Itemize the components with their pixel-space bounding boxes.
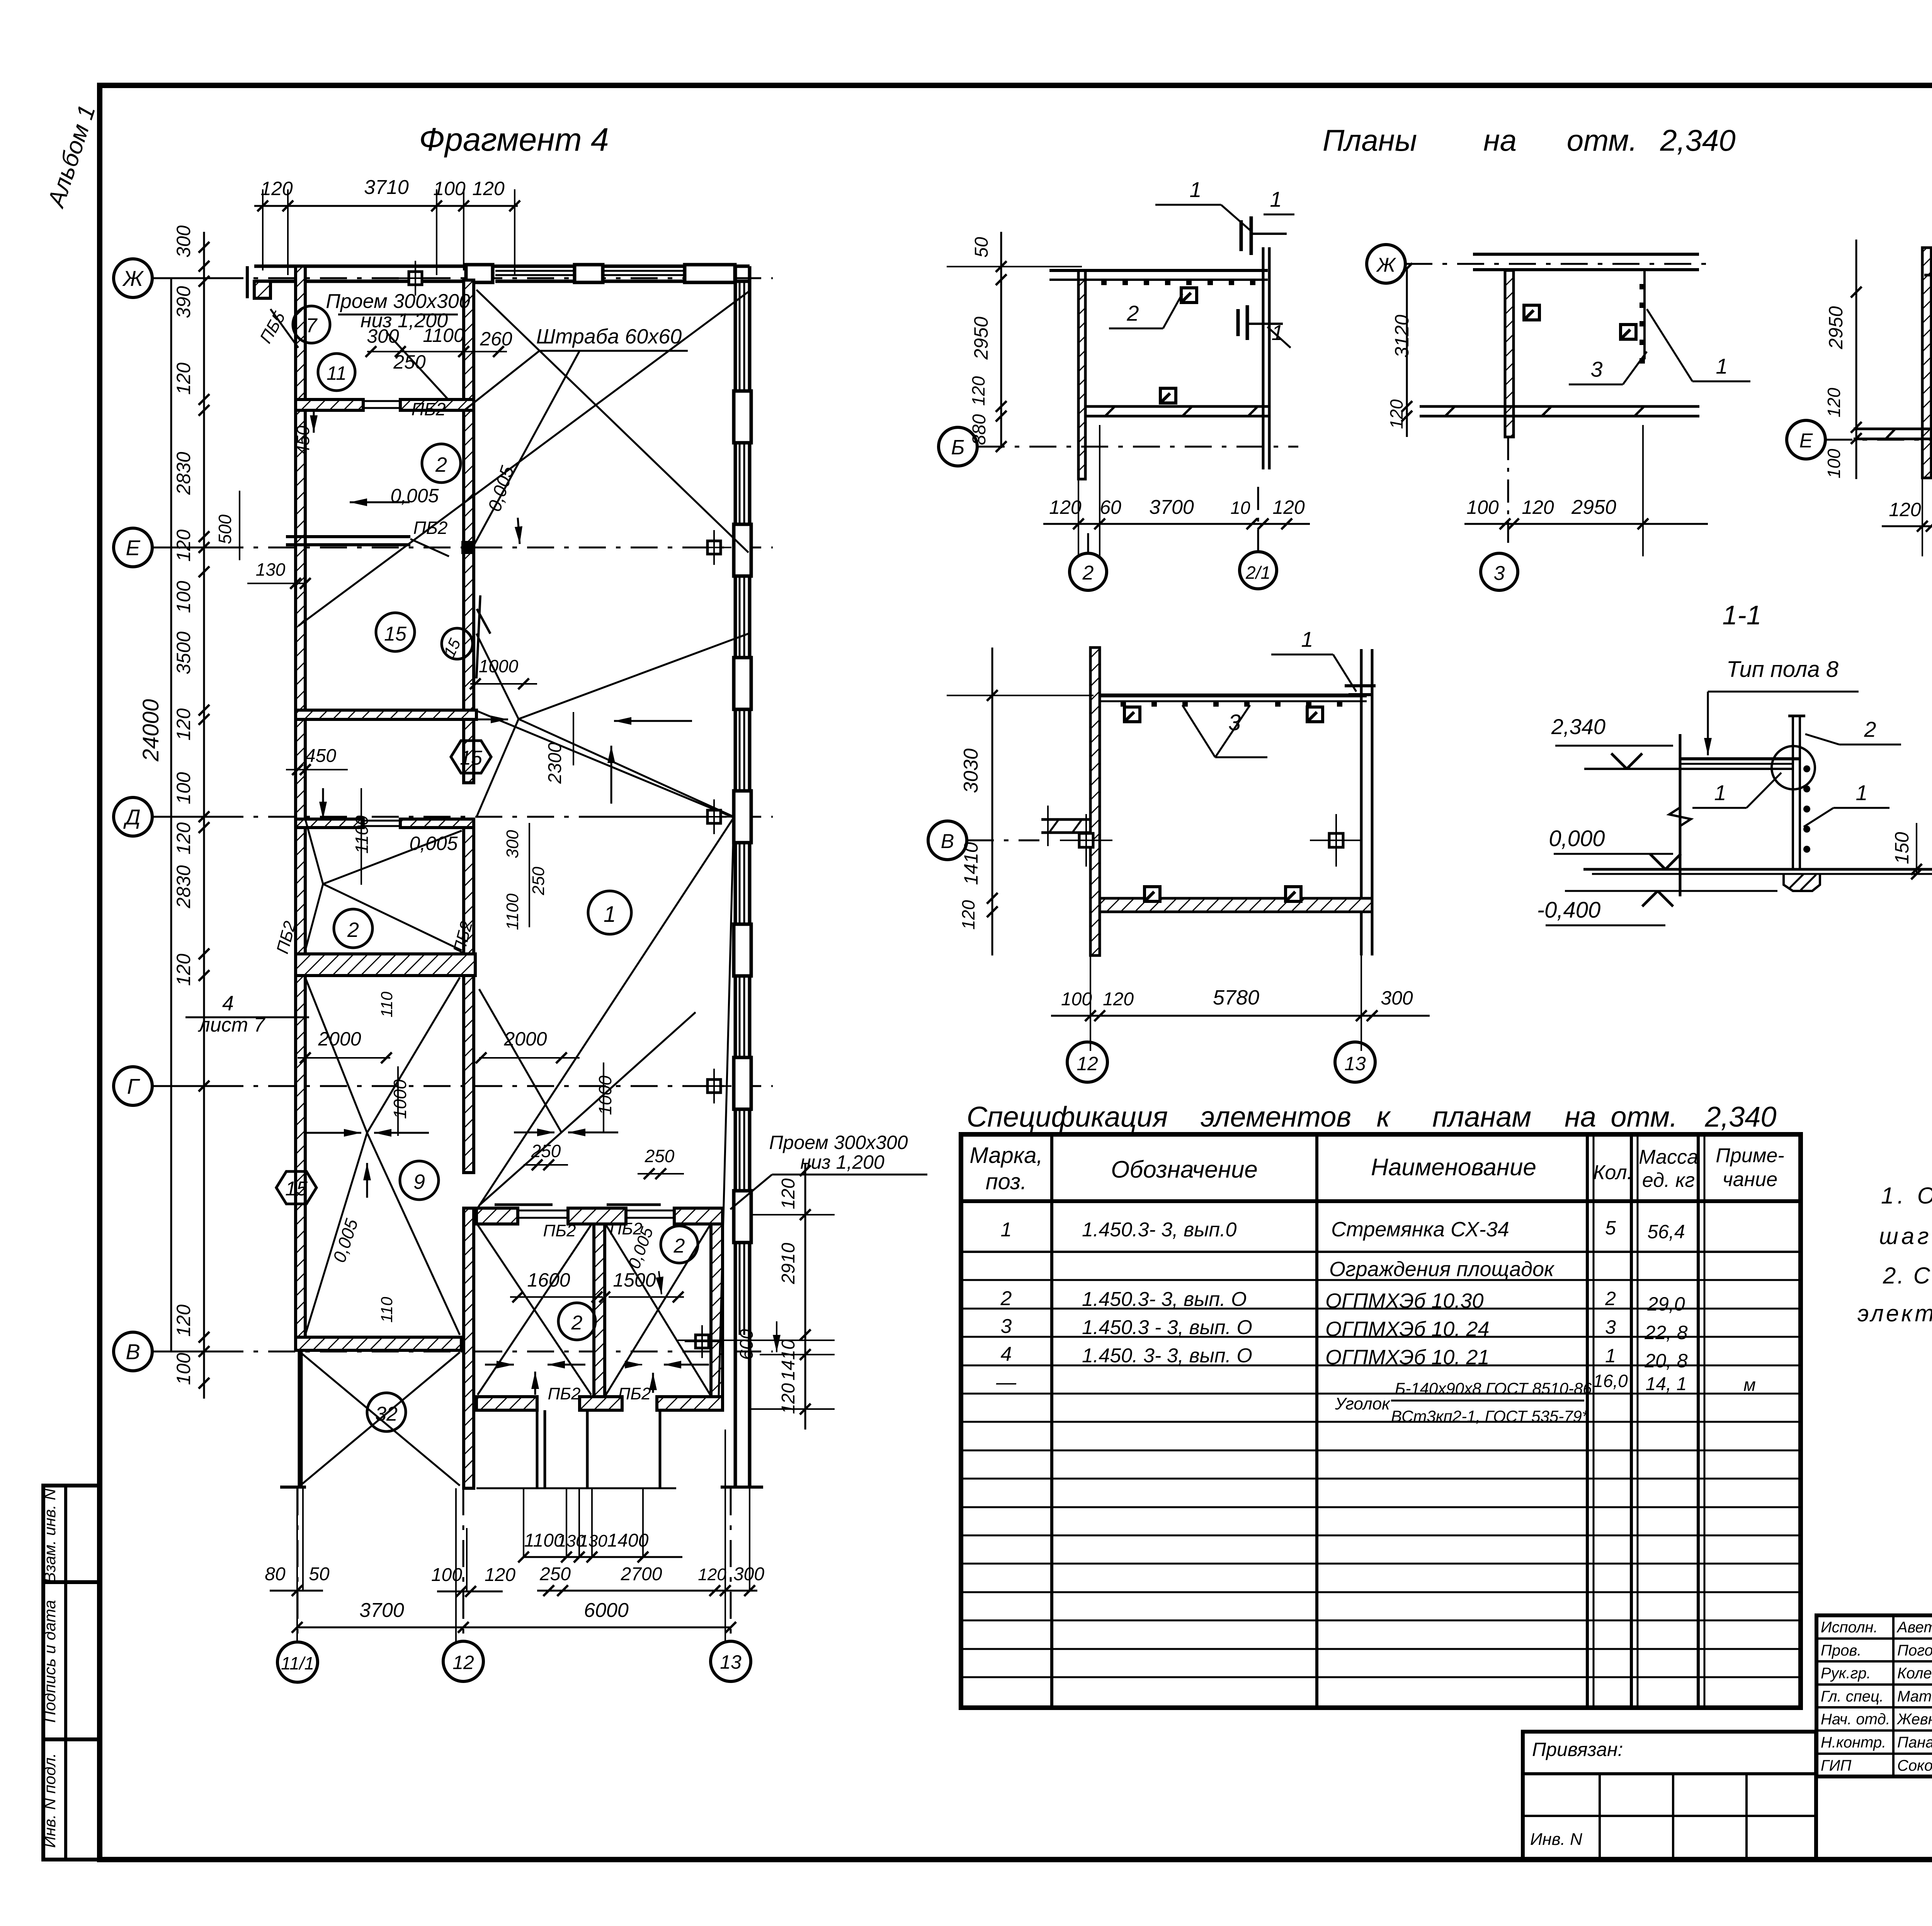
plan B v-dims [1406,269,1408,437]
svg-text:120: 120 [173,708,194,741]
svg-text:7: 7 [306,314,318,337]
north wall [254,265,750,268]
svg-text:лист 7: лист 7 [198,1014,266,1036]
svg-text:Тип пола 8: Тип пола 8 [1726,657,1838,682]
axis Д [114,797,152,836]
svg-text:Колединцева: Колединцева [1897,1665,1932,1682]
svg-text:1100: 1100 [503,893,522,930]
svg-text:Инв. N: Инв. N [1530,1830,1582,1849]
svg-text:ПБ2: ПБ2 [413,518,448,538]
svg-text:2830: 2830 [173,452,194,495]
svg-text:Привязан:: Привязан: [1532,1739,1623,1760]
svg-text:Б-140х90х8 ГОСТ 8510-86: Б-140х90х8 ГОСТ 8510-86 [1395,1379,1592,1397]
plan B left wall [1505,270,1514,437]
svg-text:60: 60 [1100,496,1121,518]
slope point corridor [476,634,519,719]
svg-text:16,0: 16,0 [1593,1371,1628,1391]
svg-text:Б: Б [951,436,964,459]
slope bottom rooms 2 [478,1225,591,1395]
svg-text:3120: 3120 [1391,314,1413,357]
svg-text:низ 1,200: низ 1,200 [800,1151,884,1173]
svg-text:120: 120 [698,1565,726,1584]
svg-text:120: 120 [173,822,194,855]
svg-text:Исполн.: Исполн. [1821,1619,1878,1636]
room 7 [293,306,330,343]
svg-text:50: 50 [309,1564,330,1584]
svg-text:6000: 6000 [584,1599,629,1622]
svg-text:Кол.: Кол. [1593,1161,1633,1184]
wall below room 15 [296,710,476,719]
svg-text:на: на [1483,123,1517,157]
svg-text:1500: 1500 [613,1269,656,1291]
wall below rooms 7/11 [296,399,363,410]
svg-text:100: 100 [433,178,466,199]
svg-text:2/1: 2/1 [1245,563,1270,583]
svg-text:Инв. N подл.: Инв. N подл. [41,1753,59,1848]
svg-text:Е: Е [1799,430,1813,452]
svg-text:2: 2 [1000,1287,1012,1310]
svg-text:4: 4 [1001,1343,1012,1365]
svg-text:2950: 2950 [970,316,992,360]
svg-text:80: 80 [265,1564,286,1584]
section floor slab [1583,868,1932,871]
east wall base tick [721,1486,763,1489]
room 11 [318,354,355,391]
right dim chain [804,1163,806,1430]
svg-text:поз.: поз. [986,1169,1027,1194]
svg-text:100: 100 [1824,449,1844,478]
plan C top beam [1931,287,1932,291]
plan B top wall [1473,253,1699,256]
svg-text:2: 2 [1864,717,1876,741]
svg-text:Уголок: Уголок [1335,1394,1391,1413]
bottom dim chain 2 [270,1590,323,1592]
svg-text:250: 250 [645,1146,675,1166]
svg-text:2000: 2000 [503,1028,547,1050]
svg-text:130: 130 [256,559,286,580]
plan B mid wall [1420,405,1699,408]
stub walls below [536,1410,539,1488]
plan B squares [1524,305,1539,320]
svg-text:Подпись и дата: Подпись и дата [41,1600,59,1723]
svg-text:120: 120 [173,1304,194,1337]
svg-text:Панащенко: Панащенко [1897,1734,1932,1751]
svg-text:450: 450 [305,746,336,766]
svg-text:Аветян: Аветян [1896,1619,1932,1636]
svg-text:Ограждения площадок: Ограждения площадок [1329,1258,1555,1281]
svg-text:0,005: 0,005 [409,833,457,854]
slope room 32 [300,1352,460,1486]
plan A col circles [1070,553,1107,590]
bottom block middle wall [594,1224,605,1397]
svg-text:120: 120 [260,178,293,199]
svg-text:5780: 5780 [1213,986,1259,1009]
svg-text:120: 120 [472,178,505,199]
svg-text:1: 1 [1301,627,1313,651]
svg-text:шаг 1,0 м.: шаг 1,0 м. [1879,1223,1932,1249]
svg-text:Штраба 60х60: Штраба 60х60 [536,325,682,348]
svg-text:3: 3 [1494,562,1505,585]
svg-text:ГИП: ГИП [1821,1757,1852,1774]
svg-text:к: к [1377,1101,1391,1133]
slope room2 upper [305,819,323,884]
room 2 mid [334,909,372,948]
svg-text:5: 5 [1605,1217,1616,1239]
svg-text:250: 250 [531,1141,561,1161]
svg-text:ПБ2: ПБ2 [412,399,446,419]
lintels over doors [518,1210,568,1212]
svg-text:1.450. 3- 3, вып. О: 1.450. 3- 3, вып. О [1082,1345,1252,1367]
plan E mid wall [1100,898,1372,912]
east wall [734,266,737,1487]
svg-text:Обозначение: Обозначение [1111,1156,1258,1183]
room 1 [588,891,631,934]
svg-text:Гл. спец.: Гл. спец. [1821,1688,1884,1705]
top dim chain [254,205,518,207]
bottom block top wall [476,1208,518,1224]
plan A squares [1181,288,1197,303]
svg-text:10: 10 [1230,498,1250,518]
room 2 [422,444,461,483]
plan C axis circle [1787,420,1825,459]
plan E left wall [1090,648,1100,955]
svg-text:Рук.гр.: Рук.гр. [1821,1665,1871,1682]
svg-text:Марка,: Марка, [969,1143,1043,1168]
svg-text:15: 15 [384,623,407,645]
svg-text:120: 120 [1824,388,1844,417]
plan B col circle [1481,553,1518,590]
svg-text:Планы: Планы [1323,123,1417,157]
svg-text:1: 1 [604,902,616,927]
svg-text:100: 100 [1466,496,1499,518]
svg-text:3: 3 [1605,1316,1616,1338]
svg-text:0,005: 0,005 [390,485,439,507]
svg-text:1. Отверстия в плитах сверл: 1. Отверстия в плитах сверлить по месту, [1881,1183,1932,1209]
svg-text:1600: 1600 [527,1269,570,1291]
svg-text:9: 9 [413,1170,425,1193]
svg-text:2,340: 2,340 [1551,714,1605,739]
svg-text:2: 2 [1082,562,1094,584]
axis Е [114,528,152,567]
svg-text:3: 3 [1590,357,1602,381]
svg-text:1: 1 [1001,1219,1012,1241]
svg-text:150: 150 [1891,832,1913,864]
axis В [114,1332,152,1371]
plan A leader 1 mid [1238,305,1247,340]
svg-text:3700: 3700 [359,1599,404,1622]
plan C left wall [1922,248,1931,478]
svg-text:120: 120 [173,362,194,395]
svg-text:3700: 3700 [1149,496,1194,518]
svg-text:120: 120 [1386,399,1406,429]
svg-text:2. Сварку металлических эл: 2. Сварку металлических элементов произв… [1883,1263,1932,1289]
svg-text:Стремянка СХ-34: Стремянка СХ-34 [1331,1218,1509,1241]
slope corridor 2 [479,989,561,1132]
svg-text:2: 2 [1605,1288,1616,1309]
svg-text:120: 120 [485,1565,515,1585]
svg-text:1: 1 [1855,780,1867,805]
svg-text:110: 110 [378,1297,396,1323]
badge 15 hex2 [451,741,491,773]
svg-text:300: 300 [1381,987,1413,1009]
svg-text:1: 1 [1270,187,1282,211]
north wall window piers [466,265,493,282]
left dim chain [203,232,205,1399]
svg-text:29,0: 29,0 [1647,1293,1685,1315]
axis Г [114,1067,152,1105]
svg-text:элементов: элементов [1201,1101,1351,1133]
svg-text:120: 120 [1522,496,1554,518]
bottom dim chain 3 [297,1627,731,1629]
east wall window piers [734,391,751,443]
svg-text:Г: Г [127,1074,140,1098]
svg-text:Д: Д [123,805,140,829]
svg-text:120: 120 [958,900,978,930]
wall column symbols [707,810,721,823]
plan E axis circle [928,821,967,860]
svg-text:120: 120 [173,529,194,562]
plan E top beam [1100,694,1367,697]
svg-text:планам: планам [1432,1101,1531,1133]
svg-text:14, 1: 14, 1 [1646,1374,1687,1394]
svg-text:100: 100 [431,1565,462,1585]
svg-text:500: 500 [215,514,235,544]
svg-text:0,000: 0,000 [1549,826,1605,851]
svg-text:13: 13 [720,1651,742,1673]
plan B h-dims [1464,523,1708,525]
svg-text:250: 250 [529,867,548,896]
plan C h-dims [1882,525,1932,527]
svg-text:электродами Э42 , ГОСТ 946: электродами Э42 , ГОСТ 9467- 75. [1857,1300,1932,1326]
axis Ж [114,259,152,297]
room 2 br [661,1226,698,1263]
svg-text:22, 8: 22, 8 [1644,1322,1687,1343]
svg-text:Е: Е [126,535,140,560]
svg-text:2: 2 [1126,301,1139,325]
door of room 15 [476,595,480,678]
svg-text:300: 300 [503,830,522,858]
svg-text:2: 2 [435,453,447,476]
section floor 2.34 [1680,757,1801,760]
svg-text:24000: 24000 [138,699,163,762]
svg-text:2300: 2300 [545,742,565,784]
svg-text:ПБ2: ПБ2 [618,1384,651,1403]
svg-text:Н.контр.: Н.контр. [1821,1734,1886,1751]
svg-text:Жевнеров: Жевнеров [1896,1711,1932,1728]
svg-text:ед. кг: ед. кг [1642,1169,1695,1192]
svg-text:2: 2 [571,1312,583,1334]
svg-text:120: 120 [1049,496,1082,518]
svg-text:3500: 3500 [173,631,194,674]
svg-text:120: 120 [1272,496,1305,518]
svg-text:120: 120 [1889,499,1921,520]
svg-text:1: 1 [1716,354,1728,378]
svg-text:Наименование: Наименование [1371,1154,1536,1181]
column at E axis [461,541,474,554]
leader opening [386,332,448,399]
plan E right wall [1360,649,1363,955]
svg-text:600: 600 [736,1329,757,1360]
svg-text:100: 100 [173,1353,194,1385]
svg-text:Фрагмент 4: Фрагмент 4 [419,121,609,158]
svg-text:ПБ2: ПБ2 [543,1221,576,1240]
thick wall above room 9 [296,954,475,976]
svg-text:Проем 300х300: Проем 300х300 [769,1132,908,1153]
svg-text:Пров.: Пров. [1821,1642,1861,1659]
svg-text:3: 3 [1001,1315,1012,1338]
svg-text:Масса: Масса [1639,1146,1698,1168]
svg-text:260: 260 [480,328,512,350]
slope room 9 [305,977,367,1133]
svg-text:120: 120 [778,1178,799,1209]
badge 15 circ [442,628,473,659]
svg-text:120: 120 [968,376,988,406]
plan E h-dims [1051,1015,1430,1017]
svg-text:-0,400: -0,400 [1537,898,1600,923]
column symbol B axis [696,1335,709,1348]
plan E col circles [1067,1042,1107,1082]
svg-text:110: 110 [378,991,396,1018]
svg-text:на: на [1565,1101,1596,1133]
section foundation [1784,874,1820,891]
plan A left wall [1078,270,1085,479]
svg-text:450: 450 [293,425,313,455]
svg-text:ОГПМХЭб 10. 21: ОГПМХЭб 10. 21 [1325,1346,1490,1369]
section detail circle [1772,746,1815,789]
svg-text:отм.: отм. [1611,1101,1677,1133]
svg-text:Ж: Ж [122,266,144,291]
badge 15 hex3 [276,1171,316,1204]
svg-text:1000: 1000 [595,1075,615,1115]
svg-text:1: 1 [1189,177,1201,202]
svg-text:Взам. инв. N: Взам. инв. N [41,1488,59,1583]
svg-text:12: 12 [1077,1053,1098,1074]
column axis 11/1 [277,1642,318,1682]
svg-text:чание: чание [1723,1168,1777,1191]
svg-text:2: 2 [673,1235,685,1257]
svg-text:1100: 1100 [423,325,464,346]
svg-text:1: 1 [1714,780,1726,805]
svg-text:2700: 2700 [621,1564,662,1584]
slope room 1 [477,711,734,818]
room 32 [367,1393,406,1431]
svg-text:1-1: 1-1 [1722,600,1761,630]
plan C mid wall [1854,428,1932,430]
plan E squares white [1079,833,1093,847]
column axis 12 [443,1641,483,1681]
wall at axis V [296,1337,461,1350]
plan B axis circle [1367,245,1405,283]
left margin stamp boxes [43,1486,100,1860]
svg-text:Спецификация: Спецификация [967,1101,1168,1133]
svg-text:1000: 1000 [390,1079,410,1119]
svg-text:120: 120 [1103,989,1134,1010]
svg-text:2950: 2950 [1571,496,1616,518]
spec grid [961,1134,1801,1708]
section railing post [1792,716,1794,869]
svg-text:4: 4 [222,992,234,1015]
svg-text:отм.: отм. [1567,123,1638,157]
room 9 [400,1161,439,1200]
plan A right wall [1262,247,1265,469]
svg-text:1.450.3 - 3, вып. О: 1.450.3 - 3, вып. О [1082,1316,1252,1339]
svg-text:15: 15 [285,1178,308,1200]
svg-text:1000: 1000 [479,656,519,676]
plan A v-dims [1000,232,1002,448]
svg-text:12: 12 [452,1652,474,1673]
svg-text:120: 120 [173,954,194,986]
svg-text:Нач. отд.: Нач. отд. [1821,1711,1890,1728]
bottom block right wall [711,1224,723,1410]
svg-text:1410: 1410 [960,842,982,885]
svg-text:250: 250 [539,1564,571,1584]
svg-text:Соколовский: Соколовский [1897,1757,1932,1774]
svg-text:1410: 1410 [778,1339,799,1380]
privyazan box [1523,1732,1816,1860]
plan A top beam [1049,269,1268,272]
svg-text:2830: 2830 [173,865,194,908]
svg-text:2,340: 2,340 [1660,123,1735,157]
svg-text:390: 390 [173,286,194,318]
svg-text:3030: 3030 [960,748,982,793]
svg-text:Погосян: Погосян [1897,1642,1932,1659]
sig table [1816,1615,1932,1776]
svg-text:Приме-: Приме- [1716,1144,1784,1167]
svg-text:300: 300 [367,325,399,347]
svg-text:м: м [1743,1375,1756,1395]
svg-text:3710: 3710 [364,176,409,199]
north wall west end block [254,281,270,298]
plan B ladder [1643,270,1646,359]
svg-text:ВСт3кп2-1, ГОСТ 535-79*: ВСт3кп2-1, ГОСТ 535-79* [1391,1407,1589,1425]
svg-text:11/1: 11/1 [281,1653,314,1673]
svg-text:1: 1 [1605,1345,1616,1367]
svg-text:13: 13 [1344,1053,1366,1074]
west wall [296,266,305,1337]
plan A h-dims [1043,523,1310,525]
svg-text:1.450.3- 3, вып. О: 1.450.3- 3, вып. О [1082,1288,1247,1311]
svg-text:ОГПМХЭб 10.30: ОГПМХЭб 10.30 [1325,1289,1483,1312]
plan E squares black [1124,707,1140,722]
svg-text:В: В [941,830,954,853]
room 15 [376,613,415,651]
plan E v-dims [992,648,993,955]
room 2 bl [558,1303,595,1340]
svg-text:50: 50 [971,237,992,258]
svg-text:В: В [126,1340,140,1364]
svg-text:130: 130 [579,1532,607,1550]
svg-text:300: 300 [173,225,194,258]
bottom block bottom walls [476,1397,537,1410]
plan A axis B circle [939,427,977,466]
svg-text:Ж: Ж [1376,254,1396,276]
svg-text:Матвеев: Матвеев [1897,1688,1932,1705]
svg-text:ОГПМХЭб 10. 24: ОГПМХЭб 10. 24 [1325,1317,1490,1341]
svg-text:2950: 2950 [1825,306,1847,349]
svg-text:100: 100 [1061,989,1092,1010]
wall at axis D [296,819,363,828]
svg-text:—: — [996,1371,1017,1394]
lintel PB2 at axis E [286,535,410,538]
slope diagonals [476,290,748,552]
svg-text:2910: 2910 [778,1243,799,1284]
svg-text:2,340: 2,340 [1704,1101,1776,1133]
svg-text:2000: 2000 [318,1028,361,1050]
bottom dim chain 1 [524,1556,682,1558]
column axis 13 [711,1641,751,1681]
svg-text:100: 100 [173,772,194,804]
svg-text:1.450.3- 3, вып.0: 1.450.3- 3, вып.0 [1082,1219,1237,1241]
